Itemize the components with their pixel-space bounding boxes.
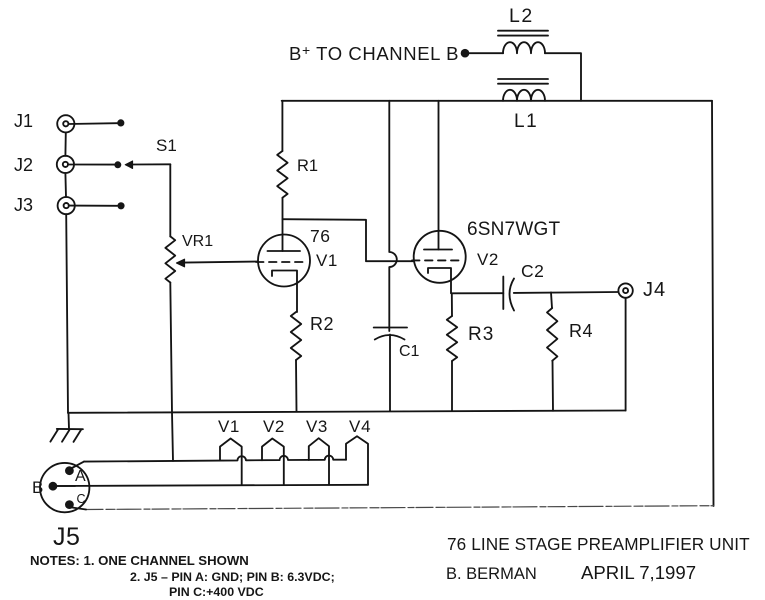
wire J4 down to ground bus (625, 298, 627, 411)
wire VR1 wiper arm from V1 grid (176, 259, 258, 267)
svg-text:J5: J5 (53, 523, 80, 551)
svg-text:NOTES: 1. ONE CHANNEL SHOWN: NOTES: 1. ONE CHANNEL SHOWN (30, 553, 249, 568)
svg-text:J3: J3 (14, 195, 33, 215)
connector J3 (14, 195, 75, 215)
wire VR1 bottom to ground bus and pin A heater wire (170, 283, 173, 461)
heater symbol tube V1 (218, 417, 242, 485)
wire J3 to switch contact (69, 205, 117, 207)
svg-text:R2: R2 (310, 314, 334, 334)
heater symbol tube V2 (262, 417, 285, 485)
heater symbol tube V3 (306, 417, 329, 485)
tube V2 (6SN7WGT triode) (412, 219, 560, 293)
svg-text:R4: R4 (569, 321, 593, 341)
wire V2 cathode node to C2 (452, 292, 504, 294)
wire J5 pin B to heater bus B (57, 485, 75, 487)
svg-text:J1: J1 (14, 111, 33, 131)
connector J1 (14, 111, 74, 132)
svg-text:R3: R3 (468, 324, 494, 345)
potentiometer VR1 (165, 233, 213, 283)
svg-text:V4: V4 (349, 417, 371, 436)
svg-text:B. BERMAN: B. BERMAN (446, 565, 537, 583)
svg-text:R1: R1 (297, 157, 318, 175)
svg-text:V3: V3 (306, 417, 328, 436)
svg-text:S1: S1 (156, 136, 177, 155)
svg-text:B: B (32, 478, 43, 497)
resistor R3 (447, 293, 494, 411)
svg-text:76: 76 (310, 226, 330, 246)
ground bus (68, 411, 626, 413)
heater symbol tube V4 (346, 417, 371, 485)
wire C2 to J4 (514, 291, 619, 294)
svg-text:L1: L1 (514, 111, 538, 132)
svg-text:C2: C2 (521, 261, 544, 281)
svg-text:L2: L2 (509, 5, 534, 27)
switch S1 wiper arrow (125, 136, 177, 169)
svg-text:B+ TO CHANNEL B: B+ TO CHANNEL B (289, 42, 459, 64)
capacitor C1 (374, 328, 420, 361)
wire pin C +400VDC (faint) (86, 506, 714, 510)
svg-text:A: A (75, 468, 86, 485)
svg-text:2. J5 – PIN A: GND; PIN B: 6.3: 2. J5 – PIN A: GND; PIN B: 6.3VDC; (130, 570, 335, 584)
wire heater bus B (6.3VDC) (57, 485, 368, 486)
connector J5 (32, 463, 89, 551)
resistor R2 (291, 312, 334, 411)
svg-text:PIN C:+400 VDC: PIN C:+400 VDC (169, 585, 264, 599)
wire jack ground chain J1-J2-J3 down to ground bus (65, 132, 68, 413)
wire B+ dot to L2 (469, 52, 503, 54)
svg-text:VR1: VR1 (182, 233, 213, 250)
wire J2 to switch contact (68, 164, 114, 166)
node S1 contact 3 (117, 202, 124, 209)
wire heater bus A (ground) with hops (84, 456, 346, 462)
svg-text:J4: J4 (643, 279, 666, 301)
wire J5 pin A to heater bus A (71, 462, 84, 469)
inductor L2 (498, 5, 548, 53)
svg-text:76 LINE STAGE PREAMPLIFIER UNI: 76 LINE STAGE PREAMPLIFIER UNIT (447, 534, 750, 554)
svg-text:V2: V2 (263, 417, 285, 436)
inductor L1 (498, 79, 548, 132)
capacitor C2 (503, 261, 544, 311)
wire top B+ bus (282, 100, 712, 102)
connector J4 (618, 279, 666, 301)
wire V1 plate node to V2 grid (283, 219, 414, 261)
svg-text:APRIL 7,1997: APRIL 7,1997 (581, 562, 696, 583)
node S1 contact 1 (117, 119, 124, 126)
ground (50, 413, 83, 442)
svg-text:6SN7WGT: 6SN7WGT (467, 219, 560, 240)
wire J1 to switch contact (68, 122, 117, 125)
tube V1 (76 triode) (256, 226, 338, 312)
wire J5 pin C to +400 wire (72, 508, 86, 510)
wire S1 to VR1 top (169, 164, 171, 236)
svg-text:C: C (77, 492, 86, 506)
resistor R4 (547, 292, 593, 410)
node S1 contact 2 (114, 161, 121, 168)
wire C1 bottom to ground bus (389, 335, 391, 412)
svg-text:V2: V2 (477, 250, 499, 269)
connector J2 (14, 155, 74, 175)
svg-text:V1: V1 (218, 417, 240, 436)
wire B+ bus down to C1 (hops over grid wire) (389, 101, 397, 331)
svg-text:C1: C1 (399, 343, 420, 360)
svg-text:J2: J2 (14, 155, 33, 175)
wire L2 right to top bus (545, 53, 581, 101)
wire right edge (pin C +400V to bus) (712, 101, 714, 506)
svg-text:V1: V1 (316, 251, 338, 270)
node B+ feed to channel B (461, 49, 470, 58)
wire B+ bus down to V2 plate (438, 101, 440, 250)
resistor R1 (277, 101, 318, 251)
